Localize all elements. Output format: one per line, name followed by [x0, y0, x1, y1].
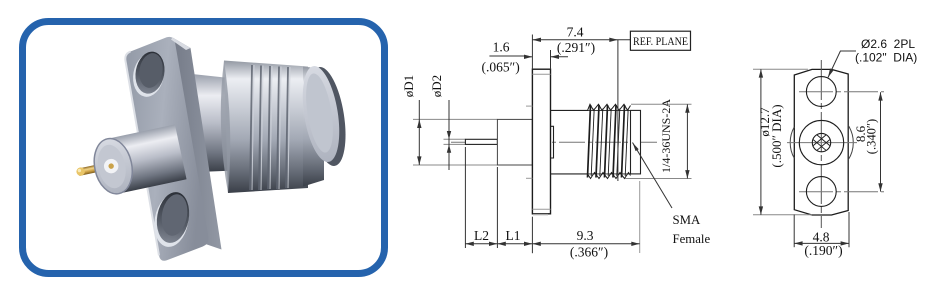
svg-text:øD2: øD2: [429, 75, 444, 97]
bottom mounting hole: [153, 190, 193, 246]
flange front outline: [794, 69, 848, 215]
thread crest zigzag bottom: [588, 173, 631, 179]
thread grooves: [250, 65, 288, 190]
extension line D1 top: [413, 118, 497, 120]
cylinder body: [106, 124, 186, 193]
barrel silhouette arc right: [848, 125, 853, 160]
svg-text:(.291″): (.291″): [557, 40, 595, 55]
middle centerline: [787, 142, 857, 144]
arrow 8.6 top: [878, 92, 882, 100]
thread flank lines: [588, 105, 629, 178]
svg-text:1/4-36UNS-2A: 1/4-36UNS-2A: [659, 99, 673, 173]
extension line thread OD top: [631, 103, 692, 105]
arrow 4.8 left: [794, 241, 802, 245]
dimension line D1: [418, 100, 420, 165]
bottom hole centerline: [799, 191, 884, 193]
boss step on flange back: [551, 126, 554, 158]
svg-text:REF. PLANE: REF. PLANE: [633, 34, 688, 48]
center outer circle: [799, 120, 843, 164]
dimension line 8.6: [880, 92, 882, 191]
flange left edge highlight: [125, 52, 159, 256]
thread crest zigzag top: [588, 104, 631, 110]
gold contact pin: [78, 160, 119, 176]
barrel silhouette arc left: [790, 127, 794, 158]
REF plane vertical line: [617, 40, 619, 181]
svg-text:Female: Female: [673, 232, 711, 246]
flange plate side face: [173, 38, 222, 250]
extension line flange left up: [531, 35, 533, 70]
svg-text:1.6: 1.6: [493, 40, 510, 55]
svg-text:7.4: 7.4: [567, 25, 584, 40]
thread root bottom line: [588, 173, 631, 175]
vertical centerline: [820, 60, 822, 228]
barrel threaded collar: [224, 61, 308, 194]
dimension line L2 L1 9.3: [465, 243, 639, 245]
blue rounded border frame of photo panel: [23, 22, 385, 274]
extension line pin tip down: [464, 147, 466, 248]
arrow L1 left: [497, 242, 505, 246]
arrow L2 right: [489, 242, 497, 246]
arrow thread OD bottom: [685, 170, 689, 178]
top mounting hole circle: [806, 77, 836, 107]
top mounting hole: [132, 49, 168, 96]
barrel top line: [551, 109, 589, 111]
flange hole edge stub bottom: [526, 177, 532, 179]
1.6 arrow left tail: [524, 56, 532, 58]
arrow L2 left: [465, 242, 473, 246]
svg-text:9.3: 9.3: [577, 228, 594, 243]
cylinder front cap: [89, 135, 137, 197]
dimension line D2: [448, 100, 450, 170]
svg-text:Ø2.6 2PL: Ø2.6 2PL: [861, 37, 915, 51]
center contact circle hatched: [812, 133, 830, 151]
flange side view outline: [532, 69, 550, 214]
arrow 9.3 right: [631, 242, 639, 246]
extension line flange right up: [550, 50, 552, 69]
arrow 12.7 bottom: [759, 206, 763, 214]
contact hatch lines: [813, 135, 830, 150]
dimension line 7.4: [532, 39, 630, 41]
svg-text:(.366″): (.366″): [570, 245, 608, 260]
flange hole edge stub top: [526, 105, 532, 107]
extension line flange left down: [531, 217, 533, 254]
flange top edge highlight: [171, 38, 191, 51]
dimension line 12.7: [760, 69, 762, 215]
svg-text:øD1: øD1: [401, 75, 416, 97]
top hole bright lip: [130, 51, 168, 100]
extension line barrel end down: [639, 181, 641, 253]
arrow 8.6 bottom: [878, 183, 882, 191]
extension line flange top left: [753, 68, 808, 70]
arrow D1 top: [417, 119, 421, 128]
top hole centerline: [799, 91, 884, 93]
extension line D2 top: [444, 138, 466, 140]
svg-text:SMA: SMA: [673, 213, 701, 227]
svg-text:(.190″): (.190″): [804, 243, 842, 258]
arrow 7.4 right: [609, 38, 618, 42]
plain end section after thread: [631, 110, 641, 173]
1.6 right tail: [551, 56, 569, 58]
arrow D2 down: [447, 131, 451, 139]
extension line D2 bottom: [444, 143, 466, 145]
barrel end band: [303, 67, 324, 187]
dimension line 4.8: [794, 242, 849, 244]
svg-text:(.102" DIA): (.102" DIA): [855, 51, 917, 65]
bottom mounting hole circle: [806, 177, 836, 207]
pin outline: [465, 139, 497, 144]
collar left shoulder shading: [221, 61, 230, 194]
flange chamfer line bottom: [532, 208, 550, 210]
extension line cylinder face down: [496, 167, 498, 248]
thread root top line: [588, 109, 631, 111]
flange plate front face: [125, 37, 208, 261]
REF PLANE box: [630, 31, 690, 50]
1.6 label shelf: [489, 55, 524, 57]
centerline horizontal: [451, 141, 659, 143]
SMA leader line: [633, 143, 673, 209]
barrel bottom line: [551, 173, 589, 175]
arrow D1 bottom: [417, 156, 421, 165]
extension line 4.8 right: [848, 212, 850, 247]
arrow 7.4 left: [532, 38, 541, 42]
leader line hole callout: [828, 51, 856, 78]
flange chamfer line top: [532, 73, 550, 75]
inner cylinder D1 outline: [497, 119, 532, 165]
dimension line thread OD: [686, 104, 688, 178]
3D connector rear barrel neck: [192, 74, 248, 172]
arrow 1.6 pointing left: [551, 55, 560, 59]
arrow 9.3 left: [532, 242, 540, 246]
barrel end cap dark rim: [302, 64, 351, 168]
barrel end cap face: [297, 63, 345, 164]
arrow 4.8 right: [841, 241, 849, 245]
extension line thread OD bottom: [625, 178, 692, 180]
arrow D2 up: [447, 144, 451, 152]
extension line 4.8 left: [793, 215, 795, 248]
svg-text:(.065″): (.065″): [481, 60, 519, 75]
arrow thread OD top: [685, 104, 689, 112]
extension line D1 bottom: [413, 164, 497, 166]
leader arrowhead: [828, 69, 834, 78]
arrow 12.7 top: [759, 69, 763, 77]
bottom hole bright lip: [150, 191, 192, 249]
flange bottom shadow: [533, 214, 548, 216]
svg-text:L2: L2: [474, 228, 489, 243]
front cylinder with pin: [71, 124, 187, 201]
arrow 1.6 pointing right: [524, 55, 532, 59]
svg-text:(.340″): (.340″): [865, 119, 879, 154]
arrow L1 right: [524, 242, 532, 246]
svg-text:L1: L1: [506, 228, 521, 243]
SMA leader arrowhead: [633, 143, 639, 152]
svg-text:(.500″ DIA): (.500″ DIA): [769, 104, 784, 167]
extension line flange bottom left: [753, 214, 812, 216]
